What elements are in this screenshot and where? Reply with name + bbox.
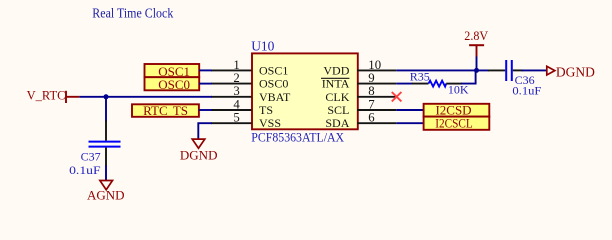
svg-text:Real Time Clock: Real Time Clock (92, 7, 173, 22)
net label box I2CSD (424, 103, 490, 118)
svg-text:U10: U10 (251, 38, 274, 53)
svg-text:AGND: AGND (87, 188, 125, 203)
svg-text:3: 3 (233, 84, 239, 98)
svg-text:VDD: VDD (323, 63, 349, 77)
pin 7 SCL (327, 97, 396, 117)
svg-text:CLK: CLK (325, 90, 349, 104)
svg-text:R35: R35 (410, 69, 430, 83)
net label box OSC0 (145, 77, 200, 92)
wire pin 10 VDD to junction and C36 (396, 69, 489, 71)
junction node V_RTC/C37 (104, 94, 109, 99)
svg-text:9: 9 (368, 71, 374, 85)
port V_RTC (27, 89, 80, 103)
ground DGND symbol left (192, 139, 205, 148)
svg-text:6: 6 (368, 111, 375, 125)
svg-text:RTC TS: RTC TS (143, 103, 188, 118)
capacitor C37 (89, 121, 121, 167)
pin 4 TS (211, 97, 273, 117)
svg-text:2: 2 (233, 71, 239, 85)
wire C36 to DGND arrow (522, 69, 547, 71)
svg-text:8: 8 (368, 84, 374, 98)
pin 1 OSC1 (211, 58, 288, 78)
svg-text:0.1uF: 0.1uF (69, 163, 101, 177)
svg-text:SDA: SDA (325, 116, 349, 130)
svg-text:VSS: VSS (259, 116, 281, 130)
svg-text:5: 5 (233, 111, 239, 125)
svg-text:2.8V: 2.8V (464, 29, 488, 43)
pin 2 OSC0 (211, 71, 288, 91)
wire pin 9 to R35 (396, 83, 413, 85)
svg-text:PCF85363ATL/AX: PCF85363ATL/AX (251, 129, 344, 144)
svg-text:C37: C37 (81, 150, 101, 164)
pin 5 VSS (211, 111, 281, 131)
ground AGND symbol (100, 181, 113, 190)
svg-text:OSC0: OSC0 (158, 77, 190, 92)
no-connect X on pin 8 (392, 92, 402, 101)
wire junction down to C37 (105, 97, 107, 122)
svg-text:4: 4 (233, 97, 240, 111)
wire V_RTC to pin 3 (79, 96, 212, 98)
net label box RTC TS (132, 103, 199, 118)
net label box I2CSCL (424, 116, 490, 131)
wire pin 5 to DGND (198, 123, 212, 139)
pin 6 SDA (325, 111, 396, 131)
net label box OSC1 (145, 64, 200, 79)
svg-text:0.1uF: 0.1uF (512, 84, 541, 98)
svg-text:OSC1: OSC1 (259, 63, 288, 77)
svg-text:DGND: DGND (180, 148, 218, 163)
svg-text:10: 10 (368, 58, 381, 72)
svg-text:OSC0: OSC0 (259, 77, 288, 91)
pin 9 INTA (321, 71, 396, 91)
pin 8 CLK (325, 84, 396, 104)
wire OSC1 box to pin 1 (199, 69, 212, 71)
capacitor C36 (488, 60, 523, 81)
svg-text:7: 7 (368, 97, 375, 111)
power 2.8V (464, 29, 488, 57)
wire pin 7 to I2CSD box (396, 109, 423, 111)
svg-text:V_RTC: V_RTC (27, 89, 66, 103)
svg-text:SCL: SCL (327, 103, 349, 117)
wire R35 up to junction (461, 70, 476, 83)
pin 10 VDD (323, 58, 396, 78)
svg-text:TS: TS (259, 103, 273, 117)
wire OSC0 box to pin 2 (199, 83, 212, 85)
resistor R35 (412, 81, 462, 87)
wire RTC TS box to pin 4 (199, 109, 212, 111)
IC U10 body (252, 53, 358, 129)
wire 2.8V to junction (476, 57, 478, 71)
svg-text:I2CSCL: I2CSCL (435, 116, 473, 131)
wire pin 6 to I2CSCL box (396, 122, 423, 124)
wire C37 to AGND (105, 166, 107, 181)
svg-text:VBAT: VBAT (259, 90, 291, 104)
junction node VDD (474, 68, 479, 73)
pin 3 VBAT (211, 84, 291, 104)
svg-text:DGND: DGND (556, 64, 595, 79)
power DGND arrow right (547, 66, 555, 75)
svg-text:1: 1 (233, 58, 239, 72)
